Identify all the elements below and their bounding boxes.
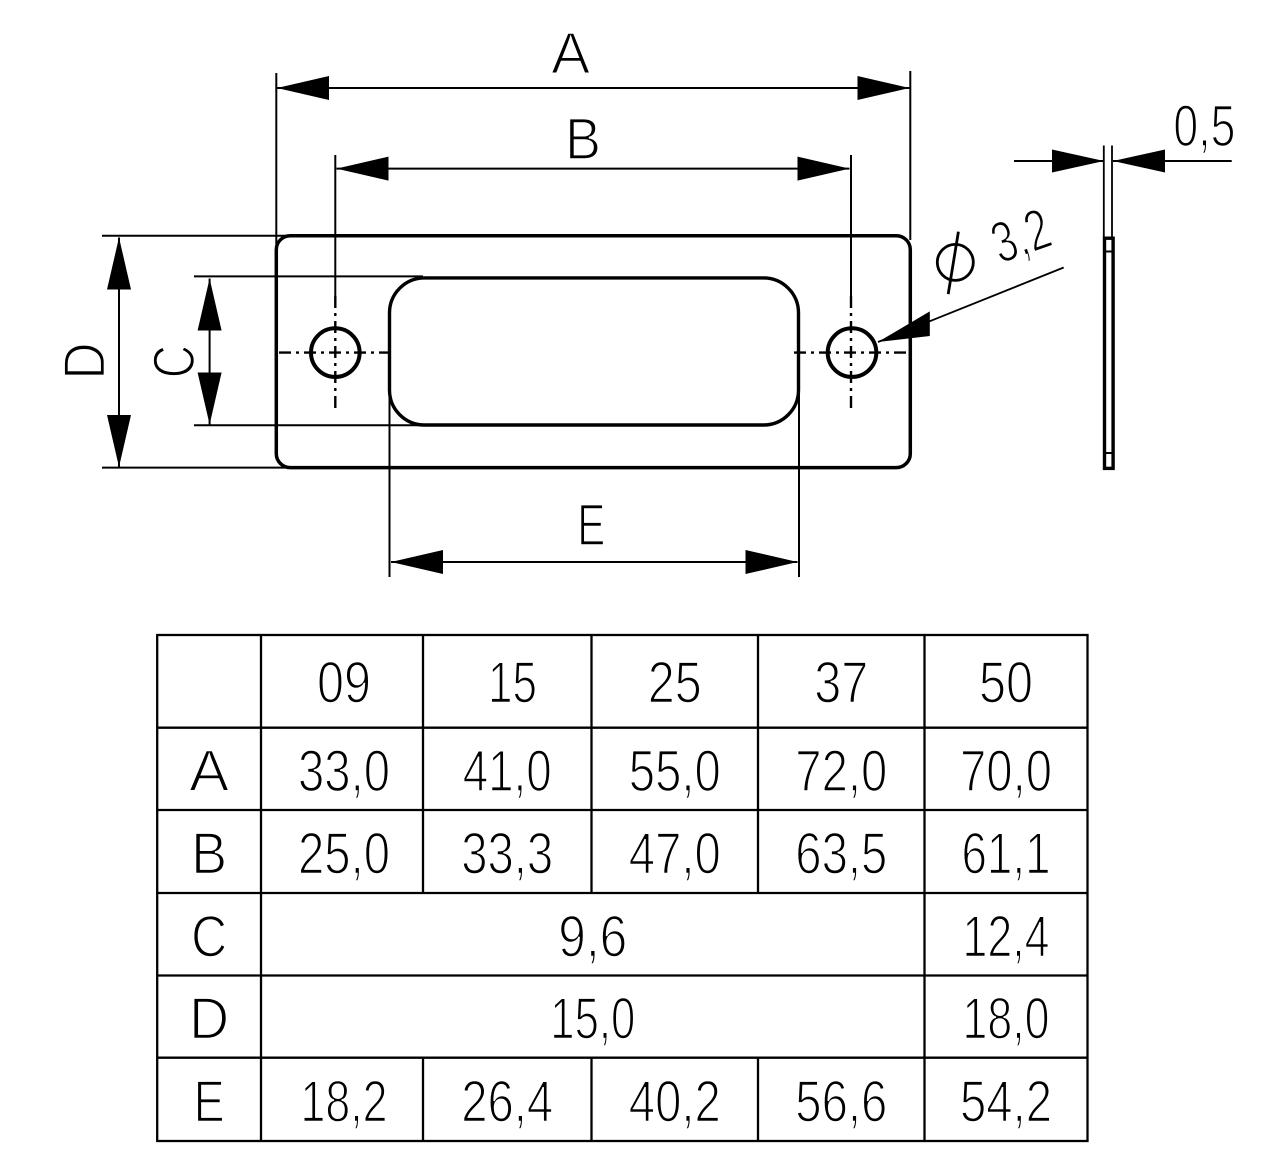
- svg-text:A: A: [551, 22, 590, 87]
- mounting hole left: [311, 328, 360, 377]
- extension line A left: [275, 73, 277, 252]
- svg-text:B: B: [565, 107, 601, 172]
- table vertical line col4 lower: [757, 1058, 759, 1141]
- extension line A right: [909, 71, 911, 240]
- arrow D top: [107, 238, 131, 290]
- svg-text:D: D: [53, 343, 118, 380]
- svg-text:25,0: 25,0: [298, 822, 390, 887]
- D-sub cutout: [390, 278, 799, 425]
- arrow E left: [391, 550, 443, 574]
- svg-text:18,2: 18,2: [301, 1069, 388, 1134]
- svg-text:54,2: 54,2: [960, 1069, 1052, 1134]
- extension line C bottom: [194, 424, 423, 426]
- svg-text:A: A: [189, 739, 229, 804]
- arrow E right: [746, 550, 798, 574]
- svg-text:40,2: 40,2: [629, 1069, 721, 1134]
- arrow C top: [198, 279, 222, 331]
- table vertical line col2 upper: [422, 635, 424, 893]
- svg-text:09: 09: [317, 651, 371, 716]
- svg-text:B: B: [191, 822, 227, 887]
- centerline horizontal left hole: [279, 351, 391, 353]
- svg-text:15: 15: [488, 651, 537, 716]
- svg-text:26,4: 26,4: [461, 1069, 553, 1134]
- svg-text:E: E: [194, 1069, 225, 1134]
- table outer border: [157, 635, 1087, 1141]
- table vertical line col5: [923, 635, 925, 1141]
- svg-text:47,0: 47,0: [629, 822, 721, 887]
- centerline horizontal right hole: [794, 351, 909, 353]
- svg-text:12,4: 12,4: [963, 904, 1050, 969]
- extension line D top: [102, 235, 293, 237]
- table horizontal line row5: [157, 1057, 1087, 1059]
- extension line B right: [850, 155, 852, 302]
- table grid: [157, 635, 1087, 1141]
- arrow B right: [798, 157, 850, 181]
- svg-text:33,3: 33,3: [461, 822, 553, 887]
- mounting hole right: [828, 328, 877, 377]
- table horizontal line row1: [157, 727, 1087, 729]
- table horizontal line row4: [157, 974, 1087, 976]
- side view profile: [1105, 238, 1114, 468]
- centerline vertical right hole: [850, 296, 852, 410]
- svg-text:56,6: 56,6: [795, 1069, 887, 1134]
- table vertical line col3 upper: [590, 635, 592, 893]
- dimension line 0,5 right part: [1113, 160, 1232, 162]
- extension line D bottom: [102, 467, 293, 469]
- svg-text:0,5: 0,5: [1173, 94, 1235, 159]
- arrow 0,5 left: [1052, 150, 1104, 173]
- arrow 0,5 right: [1113, 150, 1165, 173]
- svg-text:9,6: 9,6: [558, 904, 627, 969]
- svg-text:D: D: [189, 987, 229, 1052]
- svg-text:C: C: [142, 345, 207, 378]
- side view corner tangent tick top: [1105, 251, 1114, 253]
- table horizontal line row3: [157, 892, 1087, 894]
- arrow B left: [337, 157, 389, 181]
- svg-text:72,0: 72,0: [795, 739, 887, 804]
- table horizontal line row2: [157, 809, 1087, 811]
- diameter symbol slash: [948, 232, 958, 294]
- svg-text:E: E: [577, 493, 605, 558]
- dimension line A: [277, 87, 910, 89]
- svg-text:15,0: 15,0: [550, 987, 635, 1052]
- svg-text:18,0: 18,0: [963, 987, 1050, 1052]
- side view extension line left: [1103, 146, 1105, 238]
- extension line C top: [194, 275, 423, 277]
- table text: [189, 651, 1052, 1135]
- centerline vertical left hole: [334, 296, 336, 410]
- svg-text:37: 37: [814, 651, 868, 716]
- arrow C bottom: [198, 373, 222, 425]
- svg-text:70,0: 70,0: [960, 739, 1052, 804]
- arrow A right: [858, 76, 910, 100]
- leader line for hole diameter: [878, 268, 1064, 343]
- diameter symbol circle: [937, 244, 973, 280]
- svg-text:41,0: 41,0: [463, 739, 552, 804]
- extension line E right: [798, 392, 800, 577]
- table vertical line col1: [260, 635, 262, 1141]
- arrow A left: [277, 76, 329, 100]
- svg-text:50: 50: [979, 651, 1033, 716]
- extension line E left: [389, 392, 391, 577]
- dimension line 0,5 left part: [1014, 160, 1104, 162]
- svg-text:61,1: 61,1: [962, 822, 1051, 887]
- svg-text:25: 25: [648, 651, 702, 716]
- svg-text:63,5: 63,5: [795, 822, 887, 887]
- side view extension line right: [1111, 146, 1113, 238]
- dimension line C: [209, 279, 211, 425]
- svg-text:C: C: [191, 904, 227, 969]
- dimension line E: [391, 561, 798, 563]
- svg-text:55,0: 55,0: [629, 739, 721, 804]
- leader arrow: [878, 311, 930, 342]
- plate outline (front view): [276, 236, 910, 468]
- table vertical line col4 upper: [757, 635, 759, 893]
- extension line B left: [334, 155, 336, 296]
- dimension line D: [118, 238, 120, 468]
- svg-text:33,0: 33,0: [298, 739, 390, 804]
- side view corner tangent tick bottom: [1105, 452, 1114, 454]
- dimension line B: [337, 168, 850, 170]
- arrow D bottom: [107, 415, 131, 467]
- table vertical line col2 lower: [422, 1058, 424, 1141]
- table vertical line col3 lower: [590, 1058, 592, 1141]
